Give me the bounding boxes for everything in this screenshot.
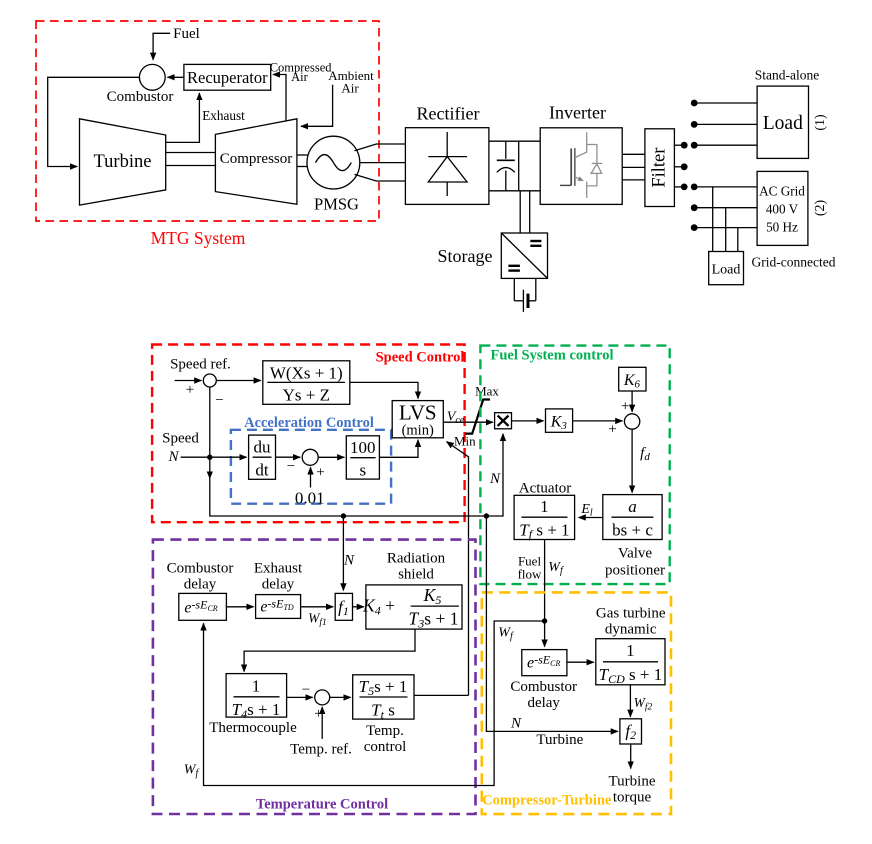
svg-text:Tt s: Tt s [371, 701, 395, 722]
svg-text:El: El [580, 502, 593, 519]
svg-text:Combustor: Combustor [510, 679, 577, 695]
svg-text:1: 1 [252, 677, 261, 696]
svg-text:−: − [302, 682, 310, 698]
svg-text:Tf s + 1: Tf s + 1 [519, 521, 569, 542]
svg-text:e-sECR: e-sECR [527, 653, 560, 672]
svg-text:Air: Air [341, 80, 359, 95]
svg-text:N: N [510, 716, 522, 732]
svg-text:T5s + 1: T5s + 1 [359, 677, 408, 698]
svg-text:positioner: positioner [605, 563, 665, 579]
svg-text:a: a [628, 497, 637, 516]
svg-text:Temperature Control: Temperature Control [256, 797, 388, 813]
svg-text:(2): (2) [813, 200, 828, 217]
svg-text:Storage: Storage [438, 246, 493, 266]
svg-text:K6: K6 [623, 372, 641, 391]
svg-text:PMSG: PMSG [314, 195, 359, 214]
svg-text:K3: K3 [550, 414, 568, 433]
svg-text:Gas turbine: Gas turbine [596, 606, 666, 622]
svg-text:Max: Max [475, 384, 499, 399]
svg-text:f1: f1 [338, 598, 349, 619]
svg-text:Speed: Speed [162, 431, 199, 447]
svg-text:50 Hz: 50 Hz [766, 220, 798, 235]
svg-text:Recuperator: Recuperator [187, 68, 268, 87]
svg-text:Wf: Wf [498, 626, 514, 643]
svg-text:−: − [287, 459, 295, 475]
svg-text:N: N [343, 553, 355, 569]
svg-text:Temp.: Temp. [366, 723, 404, 739]
svg-text:T4s + 1: T4s + 1 [232, 700, 281, 721]
svg-text:Combustor: Combustor [167, 561, 234, 577]
svg-text:shield: shield [398, 567, 434, 583]
svg-text:Load: Load [712, 263, 741, 278]
svg-text:+: + [314, 706, 322, 722]
svg-text:Wf: Wf [548, 560, 564, 577]
svg-text:torque: torque [613, 790, 652, 806]
svg-text:AC Grid: AC Grid [759, 184, 805, 199]
svg-text:+: + [608, 422, 616, 438]
svg-text:Speed ref.: Speed ref. [170, 357, 231, 373]
svg-text:delay: delay [184, 577, 217, 593]
svg-text:Combustor: Combustor [107, 89, 174, 105]
svg-text:Air: Air [291, 70, 309, 84]
svg-text:MTG System: MTG System [151, 228, 246, 248]
svg-text:Load: Load [763, 113, 803, 134]
svg-text:−: − [215, 393, 223, 409]
svg-text:Min: Min [454, 434, 476, 449]
svg-text:Turbine: Turbine [609, 774, 656, 790]
svg-text:Vce: Vce [447, 410, 465, 427]
svg-text:e-sECR: e-sECR [184, 598, 217, 617]
svg-text:Speed Control: Speed Control [376, 350, 465, 366]
svg-text:100: 100 [350, 438, 376, 457]
svg-text:+: + [621, 399, 629, 415]
svg-text:Temp. ref.: Temp. ref. [290, 742, 352, 758]
svg-text:Turbine: Turbine [94, 152, 152, 172]
svg-text:du: du [254, 438, 272, 457]
svg-text:(min): (min) [402, 423, 434, 439]
svg-text:(1): (1) [813, 114, 828, 131]
svg-text:1: 1 [626, 641, 635, 660]
svg-text:flow: flow [518, 567, 542, 582]
svg-text:TCD s + 1: TCD s + 1 [599, 665, 663, 686]
svg-text:Actuator: Actuator [519, 481, 571, 497]
svg-text:e-sETD: e-sETD [260, 597, 294, 616]
svg-text:f2: f2 [625, 722, 636, 743]
svg-text:Fuel: Fuel [173, 26, 200, 42]
svg-text:W(Xs + 1): W(Xs + 1) [270, 364, 343, 383]
svg-text:Compressor: Compressor [220, 151, 293, 167]
svg-text:Acceleration Control: Acceleration Control [244, 415, 374, 431]
svg-text:dynamic: dynamic [605, 622, 657, 638]
svg-text:delay: delay [527, 695, 560, 711]
svg-text:bs + c: bs + c [612, 521, 653, 540]
svg-text:LVS: LVS [399, 401, 437, 425]
svg-text:N: N [489, 471, 501, 487]
svg-text:400 V: 400 V [766, 202, 799, 217]
svg-text:Wf1: Wf1 [308, 611, 327, 629]
svg-text:Stand-alone: Stand-alone [755, 68, 819, 83]
svg-text:Exhaust: Exhaust [254, 561, 303, 577]
svg-text:1: 1 [540, 497, 549, 516]
svg-text:+: + [316, 465, 324, 481]
svg-text:delay: delay [262, 577, 295, 593]
svg-text:K5: K5 [423, 585, 442, 607]
svg-text:Inverter: Inverter [549, 103, 606, 123]
svg-text:+: + [186, 382, 194, 398]
svg-text:Ys + Z: Ys + Z [283, 386, 330, 405]
svg-text:control: control [364, 739, 407, 755]
svg-text:Fuel System control: Fuel System control [491, 348, 614, 364]
svg-text:Wf: Wf [184, 763, 200, 780]
svg-text:Exhaust: Exhaust [202, 108, 245, 123]
svg-text:Radiation: Radiation [387, 551, 446, 567]
svg-text:Wf2: Wf2 [634, 695, 653, 713]
svg-text:Compressor-Turbine: Compressor-Turbine [482, 793, 612, 809]
svg-text:T3s + 1: T3s + 1 [409, 609, 459, 631]
svg-text:Filter: Filter [650, 148, 670, 188]
svg-text:Rectifier: Rectifier [417, 104, 480, 124]
svg-text:0.01: 0.01 [295, 489, 325, 508]
svg-text:Valve: Valve [618, 546, 652, 562]
svg-text:K4 +: K4 + [362, 596, 395, 618]
svg-text:Thermocouple: Thermocouple [209, 720, 297, 736]
svg-text:dt: dt [255, 461, 269, 480]
svg-text:Grid-connected: Grid-connected [752, 255, 836, 270]
svg-text:N: N [167, 449, 179, 465]
svg-text:s: s [359, 461, 366, 480]
svg-text:fd: fd [640, 446, 650, 464]
svg-text:Turbine: Turbine [536, 732, 583, 748]
